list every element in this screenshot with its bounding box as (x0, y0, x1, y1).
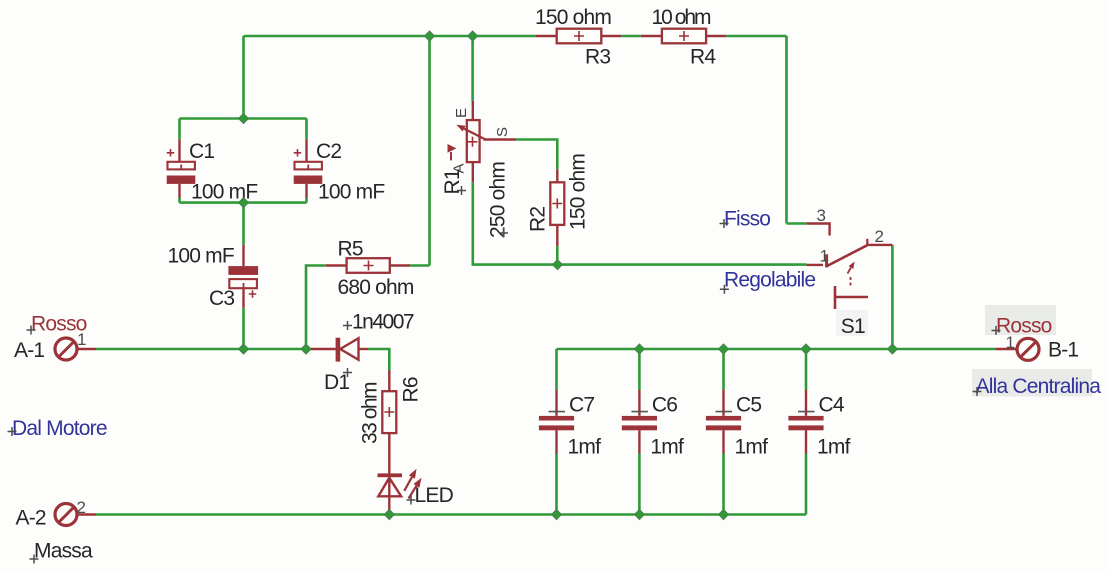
wire Fisso horizontal to S1 pin3 (787, 222, 807, 225)
node C1C2 top (239, 114, 249, 124)
wire C1C2 feed vertical (242, 36, 245, 119)
wire right column down to Fisso (785, 36, 788, 224)
origin cross LED (407, 496, 416, 505)
wire C7 top green (555, 349, 558, 390)
svg-text:1mf: 1mf (650, 436, 684, 459)
potentiometer R1 (472, 101, 474, 120)
svg-text:C6: C6 (652, 394, 677, 417)
svg-text:R6: R6 (400, 377, 423, 402)
wire C6 top green (638, 349, 641, 390)
diode D1 (311, 348, 336, 350)
wire C4 top green (805, 349, 808, 390)
resistor R3 (536, 35, 557, 37)
resistor R5 (326, 264, 347, 266)
wire R5 right column (428, 36, 431, 266)
wire C2 top lead green (305, 119, 308, 140)
node C5 top (719, 344, 729, 354)
origin cross Alla Centralina (973, 387, 982, 396)
connector A-1 (55, 338, 77, 360)
LED D2 (378, 473, 403, 477)
node D1 R5 (301, 344, 311, 354)
svg-text:A-1: A-1 (14, 339, 44, 362)
node C6 top (634, 344, 644, 354)
svg-text:C4: C4 (819, 394, 845, 417)
wire bottom rail Massa (96, 513, 806, 516)
svg-text:Rosso: Rosso (31, 313, 87, 336)
wire top rail between R3 R4 (621, 35, 641, 38)
svg-text:100 mF: 100 mF (191, 181, 257, 204)
svg-text:R4: R4 (690, 46, 716, 69)
svg-text:LED: LED (415, 484, 454, 507)
wire R5 right lead green (410, 264, 430, 267)
origin cross Massa (30, 555, 39, 564)
svg-text:250 ohm: 250 ohm (487, 162, 510, 238)
wire A-1 rail (96, 348, 311, 351)
svg-text:Regolabile: Regolabile (724, 269, 815, 292)
svg-text:E: E (453, 108, 470, 118)
svg-text:R5: R5 (338, 238, 363, 261)
node C5 bottom (719, 510, 729, 520)
svg-text:33 ohm: 33 ohm (359, 382, 382, 444)
switch S1 (807, 224, 830, 236)
svg-text:680 ohm: 680 ohm (338, 276, 414, 299)
wire LED bottom green (388, 510, 391, 515)
wire R5 left column (306, 266, 326, 350)
svg-text:1: 1 (820, 247, 829, 266)
node C1C2 bottom (239, 198, 249, 208)
wire Regolabile net (473, 182, 807, 264)
resistor R6 (388, 370, 390, 391)
origin cross Rosso A-1 (27, 326, 36, 335)
svg-text:R2: R2 (527, 207, 550, 232)
wire C1 top lead green (178, 119, 181, 140)
node C3 A-1 (239, 344, 249, 354)
svg-text:C1: C1 (189, 140, 214, 163)
wire top rail right of R4 (726, 35, 786, 38)
capacitor C6 (638, 390, 640, 416)
connector A-2 (55, 504, 77, 526)
node top rail R5 (425, 31, 435, 41)
wire S1 pin2 column (891, 245, 894, 349)
svg-text:B-1: B-1 (1048, 339, 1078, 362)
highlight box Rosso B-1 (985, 305, 1056, 335)
node R2 bottom (553, 260, 563, 270)
origin cross Rosso B-1 (992, 326, 1001, 335)
svg-text:A-2: A-2 (16, 507, 46, 530)
svg-text:1mf: 1mf (568, 436, 602, 459)
node LED bottom (384, 510, 394, 520)
wire C5 bottom green (722, 454, 725, 515)
origin cross Fisso (720, 219, 729, 228)
node C6 bottom (634, 510, 644, 520)
wire R2 bottom green (556, 246, 559, 265)
capacitor C1 (178, 139, 180, 162)
wire C2 bottom lead green (305, 198, 308, 203)
svg-text:Dal Motore: Dal Motore (12, 417, 107, 440)
wire C3 bottom green (242, 308, 245, 349)
origin cross R1 name (457, 186, 466, 195)
capacitor C7 (555, 390, 557, 416)
node S1 caps rail (887, 344, 897, 354)
svg-text:C7: C7 (569, 394, 594, 417)
capacitor C5 (722, 390, 724, 416)
svg-text:R3: R3 (585, 45, 610, 68)
highlight box Alla Centralina (972, 369, 1092, 397)
origin cross R1 value (499, 229, 508, 238)
svg-text:1mf: 1mf (817, 436, 851, 459)
svg-text:C3: C3 (209, 287, 234, 310)
node C7 bottom (552, 510, 562, 520)
svg-text:10 ohm: 10 ohm (652, 6, 712, 29)
wire C3 top green (242, 203, 245, 245)
svg-text:2: 2 (77, 498, 86, 517)
origin cross 1n4007 (343, 321, 352, 330)
wire R1 top column (471, 36, 474, 101)
wire C4 bottom green (805, 454, 808, 515)
capacitor C2 (305, 139, 307, 162)
origin cross D1 (343, 368, 352, 377)
svg-text:100 mF: 100 mF (168, 245, 234, 268)
svg-text:1mf: 1mf (735, 436, 769, 459)
wire C7 bottom green (555, 454, 558, 515)
highlight box S1 (836, 310, 868, 336)
wire C6 bottom green (638, 454, 641, 515)
svg-text:100 mF: 100 mF (318, 181, 384, 204)
capacitor C3 (242, 245, 244, 266)
wire C1 bottom lead green (178, 198, 181, 203)
resistor R4 (641, 35, 662, 37)
svg-text:Alla Centralina: Alla Centralina (976, 375, 1102, 398)
wire C1C2 top rail (180, 117, 307, 120)
svg-text:D1: D1 (324, 371, 349, 394)
svg-text:1n4007: 1n4007 (352, 311, 414, 334)
origin cross Dal Motore (8, 427, 17, 436)
svg-text:3: 3 (817, 206, 826, 225)
svg-text:Rosso: Rosso (996, 315, 1052, 338)
svg-text:150 ohm: 150 ohm (567, 154, 590, 230)
svg-text:C2: C2 (316, 140, 341, 163)
node top rail R1 (468, 31, 478, 41)
node C4 top (801, 344, 811, 354)
svg-text:S: S (494, 127, 511, 137)
resistor R2 (556, 169, 558, 182)
svg-text:C5: C5 (736, 394, 761, 417)
wire R1 S to R2 top (516, 140, 557, 170)
svg-text:Massa: Massa (34, 540, 93, 563)
svg-text:Fisso: Fisso (724, 208, 770, 231)
svg-text:150 ohm: 150 ohm (535, 6, 611, 29)
capacitor C4 (805, 390, 807, 416)
svg-text:2: 2 (875, 227, 884, 246)
svg-text:S1: S1 (841, 315, 865, 338)
wire top rail left segment (244, 35, 536, 38)
origin cross Regolabile (720, 285, 729, 294)
wire caps top rail (557, 348, 997, 351)
wire D1 to R6 corner (368, 349, 390, 370)
wire C5 top green (722, 349, 725, 390)
connector B-1 (996, 348, 1017, 350)
wire C1C2 bottom rail (180, 201, 307, 204)
